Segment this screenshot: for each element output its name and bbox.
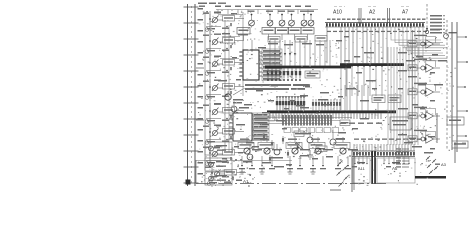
connector J2 row (352, 144, 415, 164)
transistor Q10 top row (248, 11, 255, 28)
op-amp U2 DIP (229, 113, 255, 141)
svg-text:A10: A10 (333, 10, 342, 16)
rail output stubs (457, 36, 468, 137)
wire chain top rail (277, 96, 306, 98)
resistor chains above bar B3 (276, 96, 341, 110)
svg-text:A2: A2 (369, 10, 375, 16)
label Ass prefix (236, 180, 242, 182)
wire harness horizontal mid (255, 118, 352, 124)
wire top rail with drops (215, 6, 318, 15)
cable W1 vertical bus (184, 4, 199, 186)
op-amp U1 DIP (239, 50, 262, 80)
transistor Q1 stage (203, 11, 244, 33)
wire row3 to U1 (220, 58, 239, 60)
terminal lug J0 (186, 180, 191, 185)
wire risers below B2 (345, 65, 383, 96)
label ass prefix A5 (386, 166, 391, 167)
wire number labels along cable (198, 8, 204, 175)
diode CR7 (425, 137, 427, 141)
supply label box PS2 (388, 95, 401, 110)
transistor Q10 (235, 145, 253, 163)
diode CR1 (296, 142, 303, 149)
pin numbers below bar B3 (268, 116, 382, 133)
wire riser x225 (224, 20, 226, 150)
resistor R11 top row (262, 28, 275, 41)
transistor Q15 top row (307, 11, 314, 28)
transistor Q9 (231, 101, 249, 112)
indicator DS1 box (447, 117, 464, 125)
transistor Q4 stage (203, 79, 244, 101)
misc reference labels (210, 12, 447, 177)
rail V2 (451, 22, 453, 150)
note text block (245, 84, 310, 90)
transistor Q13 (330, 130, 345, 145)
ground symbol G1 (307, 150, 313, 159)
resistor R21 second row (295, 37, 307, 43)
bus bar B3 bold (267, 110, 396, 113)
resistor R22 (340, 120, 350, 126)
resistor R20 (294, 131, 304, 137)
wire riser x229 (228, 25, 230, 152)
labels above J2 (354, 139, 422, 140)
wire tie bus to circuit row5 (196, 119, 204, 121)
diode CR3 (425, 42, 427, 46)
rail V3 (456, 22, 458, 152)
transistor Q14 top row (300, 11, 307, 28)
relay K1 box (390, 117, 411, 130)
transistor Q11 (271, 144, 283, 159)
transistor Q6 stage (203, 124, 244, 146)
assembly A2 label (368, 7, 377, 16)
bus bar B1 bold (265, 66, 351, 69)
svg-text:A11: A11 (358, 166, 366, 171)
wire drop to boundary (195, 160, 197, 184)
transistor Q11 top row (266, 11, 273, 28)
transistor Q3 stage (203, 55, 244, 77)
resistor R22 second row (315, 36, 327, 42)
transistor Q5 stage (203, 103, 244, 125)
wire riser x243 (242, 12, 244, 96)
transistor Q7 stage (203, 145, 244, 167)
wire pair x354 (353, 152, 355, 190)
diode CR5 (425, 90, 427, 94)
transistor Q20 bottom stage (238, 137, 262, 169)
resistor R21 (316, 146, 327, 152)
transistor Q24 bottom stage (334, 137, 358, 169)
svg-text:A3: A3 (441, 162, 447, 167)
wire riser x437 (436, 113, 438, 143)
resistor network label RN1 (305, 71, 320, 78)
label ass prefix A11 (352, 166, 357, 167)
bold bottom bar A3 (415, 176, 446, 179)
label top-left corner texts (198, 3, 226, 7)
diode CR6 (425, 114, 427, 118)
connector pins A3 (396, 148, 409, 167)
wire riser x412 (411, 30, 413, 140)
wire riser x205 (204, 12, 206, 170)
wire tie bus to circuit row3 (196, 67, 204, 69)
wire dash-dot boundary (196, 183, 388, 185)
pin labels U2 (253, 113, 269, 141)
ground symbol G2 (240, 168, 245, 174)
terminal label stack TB1 (430, 15, 445, 34)
wire stub DS2 (462, 142, 466, 144)
ground symbol G3 (260, 168, 265, 174)
supply label box PS1 (372, 95, 385, 110)
indicator DS2 box (452, 141, 468, 148)
rail V1 dashed (446, 20, 448, 150)
transistor Q2 stage (203, 33, 244, 55)
separator bars A2/A7 (388, 8, 390, 24)
op-amp U4 stage (408, 59, 440, 72)
diode CR4 (425, 66, 427, 70)
scan texture specks (198, 10, 456, 187)
transistor Q22 bottom stage (286, 137, 310, 169)
label ass prefix A3 (435, 164, 440, 165)
resistor R20 second row (268, 37, 280, 43)
bold separator bars A11/A5 (371, 151, 376, 184)
capacitor C1 (444, 30, 457, 38)
assembly A11 box (353, 158, 370, 183)
transistor Q21 bottom stage (258, 137, 282, 169)
separator bars A10/A2 (359, 8, 361, 24)
wire row2 to U1 (222, 36, 240, 38)
wire dashed drop (426, 4, 428, 31)
transistor Q13 top row (288, 11, 295, 28)
transistor Q12 top row (278, 11, 285, 28)
wire risers below B1 (341, 68, 347, 110)
wire A3 right edge (454, 142, 456, 163)
op-amp U5 stage (408, 83, 440, 97)
transistor Q23 bottom stage (309, 137, 333, 169)
wire riser x210 (209, 14, 211, 162)
pin numbers above comb (327, 19, 426, 20)
connector pins below bar B3 (270, 113, 381, 125)
pin labels U1 (262, 49, 282, 81)
bus bar B2 bold (340, 63, 404, 66)
assembly A5 box (377, 158, 415, 183)
wire nested bends to right (391, 27, 447, 61)
op-amp U6 stage (408, 107, 440, 121)
wire bundle right-center (388, 66, 418, 145)
resistor R10 top row (237, 28, 250, 41)
assembly A7 label (401, 7, 410, 16)
resistor R13 top row (288, 28, 301, 41)
resistor R14 top row (301, 28, 314, 41)
svg-text:A7: A7 (402, 10, 408, 16)
relay K2 stack (205, 142, 232, 185)
wire long horizontal y160 (196, 160, 292, 162)
resistor group mid-left (263, 133, 289, 163)
capacitor C4 label (425, 29, 440, 34)
wire feeds into bar B3 (345, 85, 368, 110)
transistor Q8 stage (205, 165, 246, 187)
ground symbol G4 (288, 168, 293, 174)
op-amp U7 stage (408, 130, 440, 144)
op-amp U3 stage (408, 35, 440, 49)
transistor Q8 (225, 89, 243, 101)
resistor chains below bar B1 (267, 68, 301, 81)
wire verticals feeding bus bar B1 (252, 40, 330, 66)
transistor Q12 (302, 128, 313, 143)
ground symbol G5 (311, 168, 316, 174)
transistor group lower-mid (330, 150, 352, 192)
connector pin comb A10/A2/A7 (325, 23, 425, 28)
assembly A10 label (333, 7, 345, 16)
wire bundle right-center upper (388, 47, 418, 66)
transistor group A3 (426, 156, 438, 174)
wire row1 to U1 (218, 14, 243, 16)
resistor R12 top row (276, 28, 289, 41)
wire bundle harness left (327, 27, 387, 63)
pin numbers under comb (327, 31, 427, 32)
